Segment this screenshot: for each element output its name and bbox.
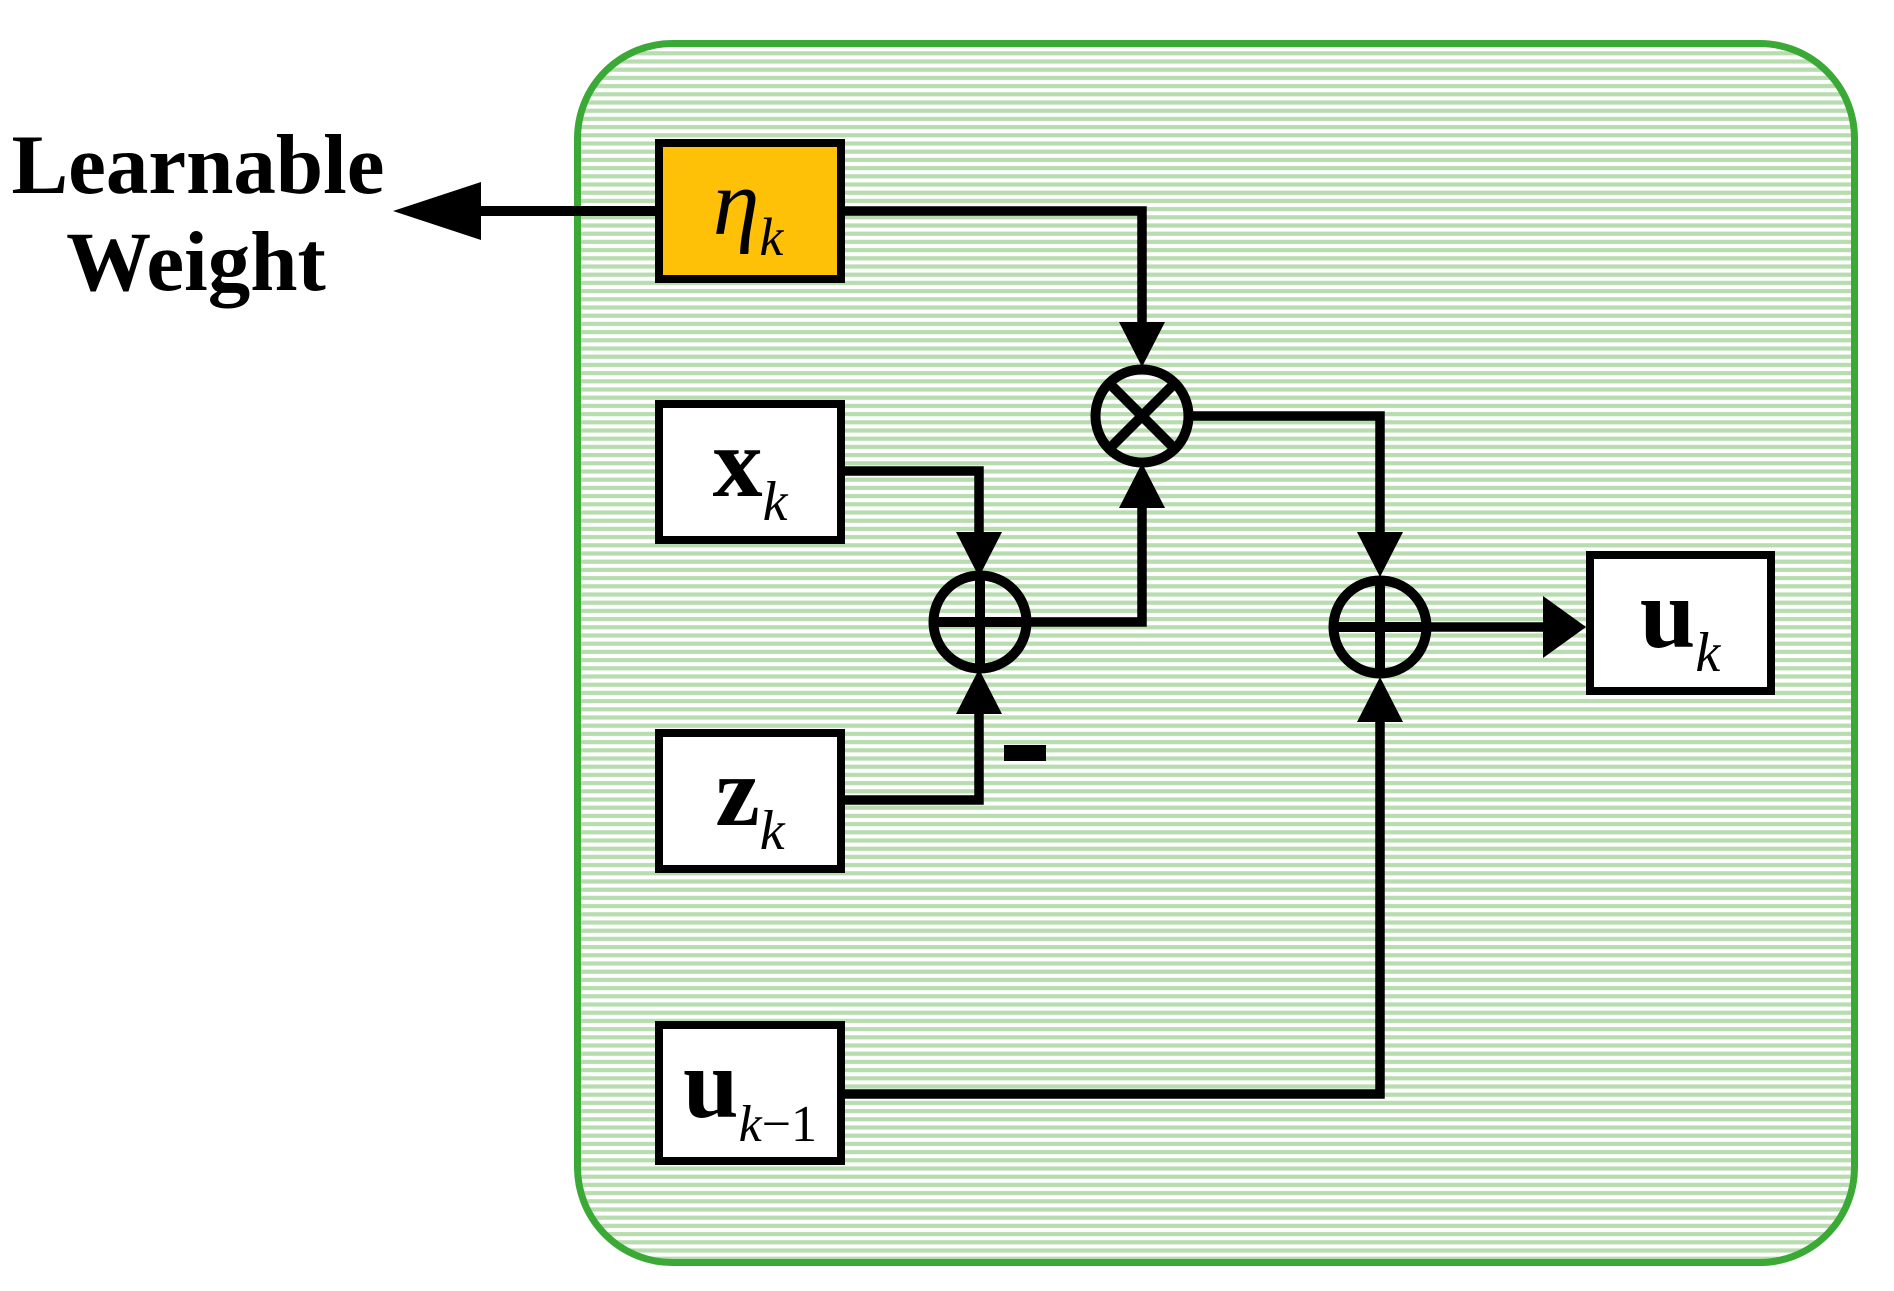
arrowhead pointing left (learnable weight) [393, 182, 481, 240]
arrowhead down into right summing junction [1357, 532, 1403, 577]
arrowhead up into multiplier [1119, 463, 1165, 508]
summing junction S2 (right circle-plus) [1330, 577, 1431, 678]
wire from z_k box to left summing junction [845, 714, 979, 800]
block u_k (output box) [1590, 555, 1771, 691]
svg-text:Learnable: Learnable [11, 118, 384, 212]
svg-text:Weight: Weight [66, 215, 326, 309]
wire from left summing junction to multiplier [1025, 507, 1142, 622]
block x_k (input box) [659, 404, 841, 540]
arrowhead down into multiplier [1119, 322, 1165, 367]
wire from eta_k box to multiplier [845, 211, 1142, 332]
wire from u_{k-1} box to right summing junction [845, 722, 1380, 1094]
minus sign at left summing junction [1004, 745, 1046, 761]
multiplier M1 (circle-times) [1096, 370, 1189, 463]
wire from eta_k box to learnable-weight arrow [472, 206, 660, 216]
arrowhead up into left summing junction [956, 669, 1002, 714]
block z_k (input box) [659, 733, 841, 869]
wire from right summing junction to u_k box [1428, 622, 1548, 632]
arrowhead right into u_k box [1543, 596, 1586, 658]
module background (green rounded box, striped fill) [578, 44, 1855, 1263]
block u_{k-1} (previous state box) [659, 1025, 841, 1161]
wire from multiplier to right summing junction [1187, 416, 1380, 532]
arrowhead up into right summing junction [1357, 677, 1403, 722]
block eta_k (learnable weight box) [659, 143, 841, 279]
wire from x_k box to left summing junction [845, 471, 979, 533]
summing junction S1 (left circle-plus) [930, 572, 1031, 673]
arrowhead down into left summing junction [956, 532, 1002, 577]
